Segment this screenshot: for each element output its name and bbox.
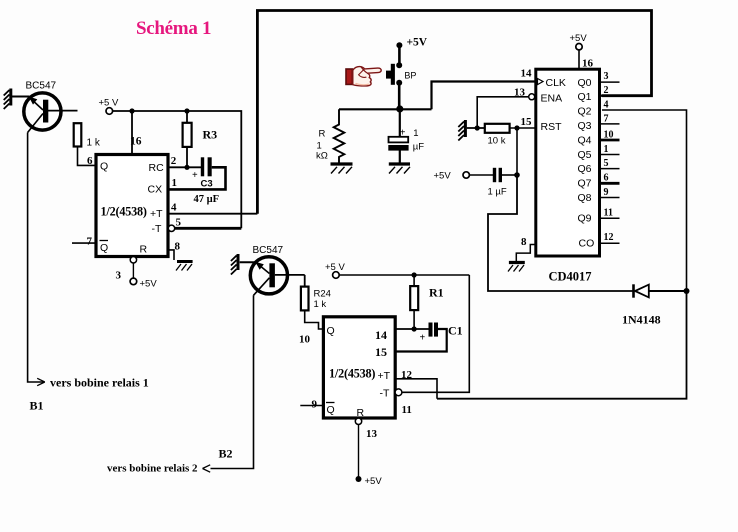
wire Q0 stub pin 3 xyxy=(600,81,620,83)
pin R bubble of U1 xyxy=(130,257,136,263)
svg-text:R: R xyxy=(357,407,365,419)
node 10k-RST junction xyxy=(514,125,519,130)
node RC-R3-C3 junction xyxy=(184,165,189,170)
transistor Q1 BC547 xyxy=(24,93,78,133)
wire +5V top to BP xyxy=(398,46,401,64)
wire Q2 output to diode junction xyxy=(602,110,687,291)
label C2 value xyxy=(413,128,424,153)
svg-text:7: 7 xyxy=(87,236,93,248)
svg-text:16: 16 xyxy=(130,136,142,148)
svg-text:CD4017: CD4017 xyxy=(549,270,592,284)
svg-text:+5V: +5V xyxy=(140,279,158,290)
svg-text:Q9: Q9 xyxy=(578,213,592,225)
svg-text:1 k: 1 k xyxy=(87,138,101,149)
wire R2 bottom to pin 6 xyxy=(78,147,97,166)
svg-text:CLK: CLK xyxy=(546,77,566,89)
svg-text:15: 15 xyxy=(375,345,387,359)
svg-text:2: 2 xyxy=(604,85,609,96)
wire Q6 stub pin 5 xyxy=(600,168,620,170)
svg-text:11: 11 xyxy=(402,404,412,416)
pin ENA bubble xyxy=(529,94,535,100)
svg-text:+T: +T xyxy=(378,370,391,382)
svg-text:1 µF: 1 µF xyxy=(488,187,507,198)
svg-text:+5V: +5V xyxy=(365,476,383,487)
ground chassis near 10k xyxy=(458,120,465,141)
wire CO stub pin 12 xyxy=(600,242,620,244)
wire Q3 stub pin 7 xyxy=(600,123,620,125)
terminal +5V at C4 xyxy=(463,172,469,178)
svg-text:14: 14 xyxy=(375,328,387,342)
wire ENA pin 13 run xyxy=(477,97,528,128)
wire +5V to U3 top xyxy=(578,50,580,69)
wire Q2 emitter to chassis xyxy=(240,261,256,263)
svg-text:7: 7 xyxy=(604,114,609,125)
svg-text:Q: Q xyxy=(327,325,335,337)
node rail-pin16 junction xyxy=(129,108,134,113)
svg-text:Q8: Q8 xyxy=(578,192,592,204)
wire R pin to +5V terminal xyxy=(132,263,134,278)
wire pin 8 of U1 to ground xyxy=(168,250,174,260)
svg-text:R: R xyxy=(319,129,326,140)
svg-text:8: 8 xyxy=(521,236,527,248)
terminal +5V of U3 xyxy=(576,44,582,50)
svg-text:R3: R3 xyxy=(203,128,218,142)
wire node to capacitor C2 xyxy=(399,109,401,137)
op-amp U2 1/2(4538) xyxy=(323,317,395,418)
wire CLK riser xyxy=(432,82,536,110)
wire C1 loop to pin 15 xyxy=(395,329,447,352)
svg-text:3: 3 xyxy=(604,71,609,82)
svg-text:3: 3 xyxy=(116,270,122,282)
svg-text:Q6: Q6 xyxy=(578,163,592,175)
ground chassis at Q1 xyxy=(4,89,11,110)
svg-text:BP: BP xyxy=(404,71,416,81)
svg-text:Q: Q xyxy=(100,161,108,173)
label Qbar of U1 xyxy=(100,241,109,255)
capacitor C4 1uF xyxy=(493,168,502,182)
ground earth at U1 pin 8 xyxy=(176,262,193,271)
wire +T pin 12 of U2 xyxy=(395,379,437,399)
wire Q1 collector down to relay 1 xyxy=(28,133,44,383)
wire Q4 stub pin 10 xyxy=(600,139,620,142)
capacitor C1 xyxy=(429,323,439,337)
wire chassis to ENA junction xyxy=(467,127,485,129)
svg-text:+5V: +5V xyxy=(407,37,428,49)
wire pin 9 stub xyxy=(300,405,323,407)
svg-text:13: 13 xyxy=(366,428,378,440)
svg-text:5: 5 xyxy=(176,217,182,229)
svg-text:1: 1 xyxy=(413,128,418,139)
pin 5 bubble of U1 xyxy=(168,225,174,231)
label Qbar of U2 xyxy=(326,403,335,417)
transistor Q2 BC547 xyxy=(250,257,304,296)
svg-text:+: + xyxy=(192,170,198,181)
wire +T pin 4 of U1 xyxy=(168,213,257,215)
diode D1 1N4148 xyxy=(634,284,687,297)
svg-text:R: R xyxy=(140,244,148,256)
resistor R 1k zigzag xyxy=(334,109,345,162)
terminal +5V of U1 rail xyxy=(106,108,113,115)
svg-text:15: 15 xyxy=(521,116,533,128)
svg-text:C1: C1 xyxy=(448,324,463,338)
wire Q5 stub pin 1 xyxy=(600,154,620,156)
resistor R4 10k xyxy=(485,124,510,133)
wire C3 loop to CX pin 1 xyxy=(168,167,226,189)
label R 1kohm xyxy=(316,129,328,162)
svg-text:+5V: +5V xyxy=(434,171,452,182)
wire +5V rail of U1 xyxy=(113,111,242,228)
node R1 top junction xyxy=(412,272,417,277)
svg-text:Q: Q xyxy=(100,242,108,254)
wire pin 14 of U2 to C1 xyxy=(395,328,428,330)
svg-text:C3: C3 xyxy=(201,179,213,190)
wire Q2 collector down to relay 2 xyxy=(211,295,254,468)
svg-text:RC: RC xyxy=(149,162,165,174)
wire Q9 stub pin 11 xyxy=(600,217,620,219)
svg-text:4: 4 xyxy=(604,100,609,111)
node C4 junction xyxy=(514,172,520,178)
outputs Q0-Q9 CO of U3 xyxy=(578,77,595,250)
svg-text:Q: Q xyxy=(327,404,335,416)
wire RST junction down to C4 xyxy=(516,128,518,175)
wire node to R zigzag and CLK riser xyxy=(339,108,432,110)
ground earth at U3 pin 8 xyxy=(508,263,525,272)
svg-text:R24: R24 xyxy=(314,289,331,300)
svg-text:1N4148: 1N4148 xyxy=(622,313,661,327)
svg-text:Q2: Q2 xyxy=(578,106,592,118)
svg-text:ENA: ENA xyxy=(541,93,563,105)
node diode junction xyxy=(684,288,690,294)
wire R3 top lead xyxy=(186,111,188,123)
node +5V top terminal xyxy=(396,42,402,48)
svg-text:5: 5 xyxy=(604,158,609,169)
node pin14-R1-C1 junction xyxy=(412,326,417,331)
svg-text:CO: CO xyxy=(579,238,595,250)
svg-text:Q5: Q5 xyxy=(578,149,592,161)
svg-text:Q0: Q0 xyxy=(578,77,592,89)
wire RC pin 2 of U1 xyxy=(168,166,201,168)
wire +5V rail of U2 xyxy=(339,274,469,276)
svg-text:+: + xyxy=(400,128,406,139)
svg-text:6: 6 xyxy=(604,173,609,184)
svg-text:+T: +T xyxy=(150,208,163,220)
wire C2 to ground xyxy=(399,151,401,163)
resistor R24 xyxy=(301,287,309,311)
wire Q7 stub pin 6 xyxy=(600,182,620,185)
pin R bubble of U2 xyxy=(355,418,361,424)
capacitor C3 xyxy=(201,157,212,176)
node rail-R3 junction xyxy=(184,108,189,113)
IC U3 CD4017 xyxy=(536,69,600,256)
svg-text:47 µF: 47 µF xyxy=(194,194,220,205)
ground earth at R 1k xyxy=(331,164,353,174)
wire diode junction down to +T of U2 xyxy=(437,291,687,399)
svg-text:1: 1 xyxy=(172,177,178,189)
svg-text:1/2(4538): 1/2(4538) xyxy=(329,367,375,381)
pin -T bubble of U2 xyxy=(395,389,402,396)
svg-text:kΩ: kΩ xyxy=(316,151,328,162)
svg-text:Q3: Q3 xyxy=(578,120,592,132)
wire pin 16 of U1 xyxy=(131,111,133,155)
svg-text:16: 16 xyxy=(582,58,594,70)
node +5V terminal under U2 xyxy=(356,476,362,482)
svg-text:Q4: Q4 xyxy=(578,134,592,146)
svg-text:8: 8 xyxy=(175,241,181,253)
svg-text:6: 6 xyxy=(87,155,93,167)
svg-text:+5 V: +5 V xyxy=(99,98,119,109)
terminal +5V under U1 xyxy=(130,278,137,285)
svg-text:4: 4 xyxy=(171,202,177,214)
wire R1 leads xyxy=(413,275,415,329)
svg-text:2: 2 xyxy=(171,155,177,167)
svg-text:B1: B1 xyxy=(30,399,44,413)
resistor R3 xyxy=(183,123,192,147)
svg-text:CX: CX xyxy=(148,184,163,196)
wire R3 bottom lead xyxy=(186,147,188,167)
wire R pin of U2 to +5V xyxy=(358,425,360,477)
svg-text:-T: -T xyxy=(152,223,162,235)
wire -T pin 5 of U1 to +5V loop xyxy=(175,227,241,230)
svg-text:10 k: 10 k xyxy=(488,136,506,147)
wire Q1 stub pin 2 xyxy=(600,94,652,96)
svg-text:Schéma 1: Schéma 1 xyxy=(136,18,211,39)
op-amp U1 1/2(4538) xyxy=(96,155,168,257)
svg-text:vers bobine relais 1: vers bobine relais 1 xyxy=(50,376,149,390)
icon pointing hand xyxy=(346,67,381,86)
svg-text:1: 1 xyxy=(604,144,609,155)
capacitor C2 1uF electrolytic xyxy=(388,137,408,151)
wire +5V to C4 xyxy=(469,174,493,176)
wire Q8 stub pin 9 xyxy=(600,197,620,199)
wire top route Q1 to +T of U1 xyxy=(257,11,651,214)
node ENA junction xyxy=(475,125,480,130)
svg-text:1/2(4538): 1/2(4538) xyxy=(101,205,147,219)
pin CLK symbol xyxy=(538,79,544,85)
svg-text:+5V: +5V xyxy=(570,33,588,44)
resistor R2 1k base of Q1 xyxy=(74,123,82,146)
wire R24 top lead xyxy=(304,275,306,287)
arrow to relais 1 xyxy=(37,378,45,385)
arrow to relais 2 xyxy=(203,465,211,472)
svg-text:-T: -T xyxy=(380,388,390,400)
svg-text:10: 10 xyxy=(299,334,311,346)
svg-text:13: 13 xyxy=(514,87,526,99)
svg-text:+: + xyxy=(420,333,426,344)
wire Q1 emitter to chassis xyxy=(12,96,30,98)
wire R24 to pin 10 Q xyxy=(305,310,324,329)
svg-text:1 k: 1 k xyxy=(314,299,327,310)
pushbutton BP xyxy=(386,62,402,86)
svg-text:10: 10 xyxy=(604,130,614,141)
svg-text:Q7: Q7 xyxy=(578,178,592,190)
svg-text:12: 12 xyxy=(604,232,614,243)
wire BP to main node xyxy=(398,85,401,109)
resistor R1 xyxy=(410,286,418,310)
svg-text:RST: RST xyxy=(541,121,563,133)
svg-text:BC547: BC547 xyxy=(26,81,57,92)
svg-text:R1: R1 xyxy=(429,286,444,300)
svg-text:B2: B2 xyxy=(219,447,233,461)
wire C4 junction to diode run xyxy=(488,175,633,291)
wire 10k to RST xyxy=(510,127,536,129)
wire pin 8 of U3 to ground xyxy=(516,245,536,262)
wire pin 7 stub xyxy=(72,242,96,244)
svg-text:µF: µF xyxy=(413,142,424,153)
svg-text:+5 V: +5 V xyxy=(325,262,345,273)
svg-text:9: 9 xyxy=(312,399,318,411)
ground earth at C2 xyxy=(389,164,410,174)
svg-text:9: 9 xyxy=(604,187,609,198)
svg-text:11: 11 xyxy=(604,208,613,219)
terminal +5V of U2 rail xyxy=(333,272,340,279)
svg-text:BC547: BC547 xyxy=(253,245,284,256)
node main junction under BP xyxy=(396,105,403,112)
wire C4 to junction xyxy=(502,174,517,176)
svg-text:Q1: Q1 xyxy=(578,91,592,103)
ground chassis at Q2 xyxy=(231,254,238,275)
svg-text:14: 14 xyxy=(521,68,533,80)
svg-text:vers bobine relais 2: vers bobine relais 2 xyxy=(107,463,198,475)
wire -T pin 11 of U2 to +5V rail xyxy=(402,275,469,392)
